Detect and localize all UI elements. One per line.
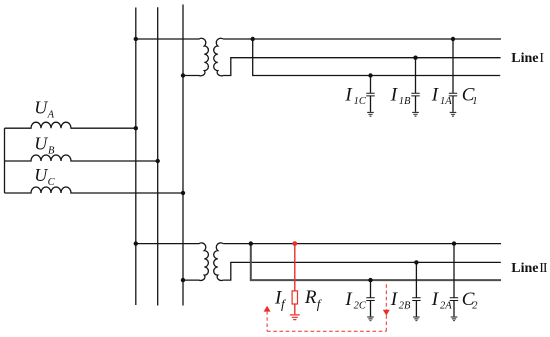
wire Line II conductor 3 (bottom, phase C) dropped from conductor 1: [251, 244, 501, 281]
svg-text:1B: 1B: [399, 96, 411, 107]
node bus3 / T1 primary bottom: [181, 73, 185, 77]
transformer T2 primary winding: [136, 243, 209, 281]
source U_B inductor winding: [5, 155, 158, 161]
ground (I2B branch): [413, 317, 420, 321]
bus A (vertical busbar 1): [135, 8, 137, 306]
wire below resistor Rf: [294, 304, 296, 314]
ground (I2A branch): [451, 317, 458, 321]
capacitor C (phase B line II) plates: [412, 298, 420, 301]
svg-text:1A: 1A: [440, 96, 452, 107]
ground (I1B branch): [412, 112, 419, 116]
node U_C to bus3: [181, 191, 185, 195]
node bus1 / T1 primary top: [134, 37, 138, 41]
bus B (vertical busbar 2): [157, 7, 159, 305]
wire Line I conductor 3 (bottom, phase C) dropped from conductor 1: [253, 39, 501, 76]
svg-text:1C: 1C: [354, 96, 367, 107]
svg-text:U: U: [34, 98, 48, 118]
svg-text:I: I: [390, 84, 399, 105]
source U_A inductor winding: [5, 122, 136, 128]
arrow If up (red): [264, 306, 271, 312]
svg-text:I: I: [344, 289, 353, 310]
wire below capacitor: [415, 96, 417, 112]
ground (I1A branch): [450, 112, 457, 116]
node Line I conductor1 / I1A tap: [451, 37, 455, 41]
wire Line II conductor 1 (top, phase A): [223, 243, 501, 245]
capacitor branch I1C wire: [370, 76, 372, 93]
wire fault-current dashed path (left vertical): [266, 311, 268, 331]
wire Line I conductor 2 (middle, phase B) with step from secondary: [223, 58, 501, 76]
svg-text:I: I: [431, 84, 440, 105]
capacitor branch I1B wire: [415, 58, 417, 93]
capacitor C (phase C line I) plates: [366, 93, 374, 96]
ground (I2C branch): [367, 317, 374, 321]
svg-text:2B: 2B: [399, 301, 411, 312]
svg-text:A: A: [47, 110, 55, 121]
node Line I conductor2 / I1B tap: [413, 56, 417, 60]
svg-text:LineI: LineI: [511, 51, 544, 66]
svg-text:I: I: [390, 289, 399, 310]
wire below capacitor: [415, 301, 417, 317]
svg-text:LineII: LineII: [511, 261, 548, 276]
svg-text:B: B: [48, 145, 55, 156]
node Line I conductor3 / I1C tap: [368, 73, 372, 77]
svg-text:C: C: [48, 177, 56, 188]
wire Line II conductor 2 (middle, phase B) with step from secondary: [223, 262, 501, 280]
capacitor C (phase B line I) plates: [411, 93, 419, 96]
svg-text:2: 2: [472, 301, 478, 312]
wire neutral (left vertical connector of sources): [4, 128, 6, 193]
ground (I1C branch): [367, 112, 374, 116]
wire below capacitor: [452, 96, 454, 112]
capacitor C (phase C line II) plates: [366, 298, 374, 301]
capacitor C2 plates: [450, 298, 458, 301]
svg-text:I: I: [344, 84, 353, 105]
transformer T1 primary winding: [136, 38, 209, 76]
wire below capacitor: [370, 96, 372, 112]
node Line I conductor1 / drop wire: [251, 37, 255, 41]
transformer T1 secondary winding: [214, 38, 223, 76]
svg-text:f: f: [281, 297, 287, 312]
capacitor branch I2A wire: [453, 244, 455, 298]
source U_C inductor winding: [5, 187, 184, 193]
wire fault-current dashed path (bottom horizontal): [267, 330, 386, 332]
wire fault-current dashed path (right vertical): [385, 282, 387, 331]
node U_B to bus2: [156, 159, 160, 163]
capacitor branch I1A wire: [452, 39, 454, 93]
wire fault (red) from Line II conductor1 down to resistor: [294, 244, 296, 291]
capacitor C1 plates: [449, 93, 457, 96]
capacitor branch I2B wire: [415, 262, 417, 297]
transformer T2 secondary winding: [214, 243, 223, 281]
resistor Rf (red rectangle): [292, 291, 297, 304]
svg-text:U: U: [34, 134, 48, 154]
node Line II conductor1 / I2A tap: [452, 241, 456, 245]
ground (fault, red): [290, 315, 300, 320]
node Line II conductor2 / I2B tap: [414, 260, 418, 264]
fault branch: node on Line II conductor1 (red): [292, 241, 297, 246]
svg-text:2C: 2C: [354, 301, 367, 312]
node Line II conductor1 / drop wire: [249, 241, 253, 245]
svg-text:U: U: [34, 165, 48, 185]
wire below capacitor: [453, 301, 455, 317]
bus C (vertical busbar 3): [182, 5, 184, 306]
node Line II conductor3 / I2C tap: [368, 278, 372, 282]
capacitor branch I2C wire: [370, 280, 372, 297]
svg-text:R: R: [304, 287, 317, 308]
arrow down on return path (red): [383, 310, 390, 316]
svg-text:I: I: [431, 289, 440, 310]
svg-text:f: f: [317, 297, 323, 312]
svg-text:2A: 2A: [440, 301, 452, 312]
node bus3 / T2 primary bottom: [181, 278, 185, 282]
wire Line I conductor 1 (top, phase A): [223, 38, 501, 40]
svg-text:1: 1: [472, 96, 477, 107]
wire below capacitor: [370, 301, 372, 317]
node U_A to bus1: [134, 126, 138, 130]
node bus1 / T2 primary top: [134, 241, 138, 245]
